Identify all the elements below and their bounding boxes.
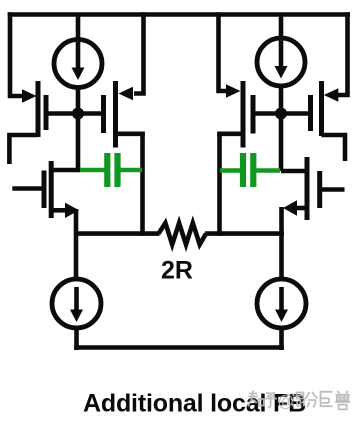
wire M4 stub (right hanging) <box>322 135 346 161</box>
wire I1 output down through node to cascode <box>76 88 81 171</box>
wire I2 output down through node to cascode <box>279 86 284 171</box>
svg-text:@: @ <box>278 393 295 411</box>
wire I1 feed from rail <box>76 15 81 41</box>
current source I1 <box>54 40 102 88</box>
wire right trunk <box>217 132 222 236</box>
wire I4 to bottom rail <box>279 326 284 350</box>
wire inner-right drop to M3 gate <box>219 12 229 91</box>
wire M3 gate to right trunk <box>217 132 245 137</box>
wire left edge drop to M1 gate <box>10 12 24 96</box>
capacitor C1 <box>79 153 142 187</box>
wire M2 gate to left trunk <box>113 132 145 137</box>
transistor M2 (inner left) <box>78 81 133 148</box>
node A (drain junction left) <box>72 108 84 120</box>
current source I3 <box>52 279 101 328</box>
node B (drain junction right) <box>275 108 287 120</box>
transistor M3 (inner right) <box>226 81 281 148</box>
svg-text:2R: 2R <box>161 257 193 285</box>
wire I2 feed from rail <box>279 15 284 39</box>
wire bottom rail <box>74 345 284 350</box>
current source I2 <box>257 38 305 86</box>
wire M1 stub (left hanging) <box>9 135 38 164</box>
transistor M4 (outer right) <box>281 81 338 136</box>
wire left trunk <box>140 132 145 236</box>
wire I3 to bottom rail <box>74 326 79 350</box>
resistor R1 (2R) <box>74 223 284 245</box>
wire M5 source down to I3 <box>74 209 79 281</box>
transistor M6 (lower right) <box>281 157 345 220</box>
watermark zhihu <box>248 391 350 410</box>
transistor M5 (lower left) <box>12 161 80 218</box>
current source I4 <box>257 279 306 328</box>
wire top supply rail <box>8 12 350 17</box>
wire right edge drop to M4 gate <box>338 12 348 95</box>
transistor M1 (outer left) <box>22 81 78 137</box>
wire M6 source down to I4 <box>279 207 284 281</box>
capacitor C2 <box>220 153 280 187</box>
wire inner-left drop to M2 gate <box>134 12 144 93</box>
